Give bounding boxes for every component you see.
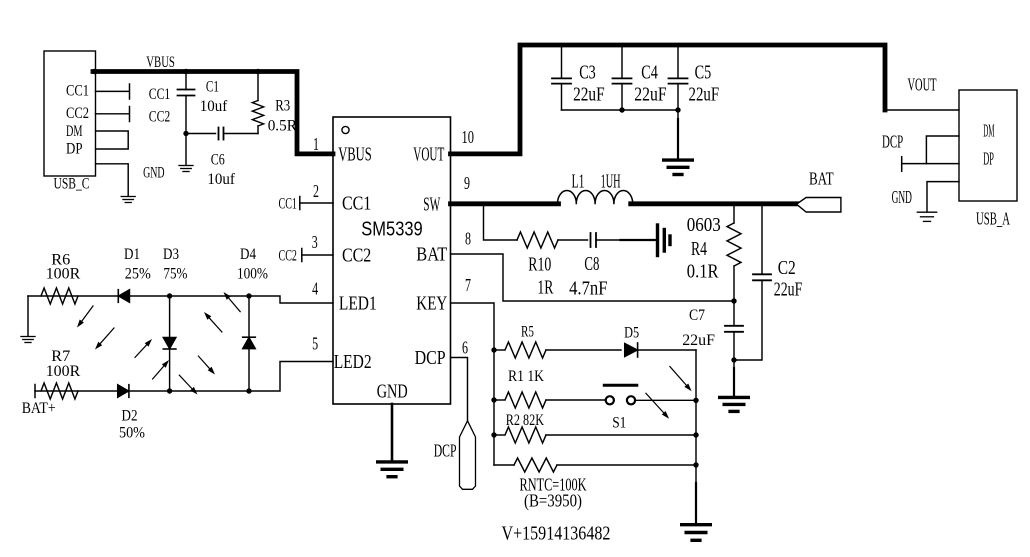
wire BAT pin8 to R4/C7 node [451, 254, 735, 301]
svg-text:(B=3950): (B=3950) [524, 490, 582, 510]
svg-text:CC1: CC1 [149, 86, 171, 103]
svg-text:7: 7 [465, 275, 471, 295]
ground left of R6 [27, 296, 29, 336]
resistor RNTC=100K [494, 464, 514, 466]
wire LED bottom rail [35, 362, 333, 392]
svg-text:C8: C8 [584, 253, 599, 275]
ground below S1 bus [682, 525, 711, 541]
pin CC1 of USB_C with open terminal [96, 90, 129, 92]
capacitor C4 22uF [621, 47, 623, 78]
diode D5 [625, 344, 638, 357]
svg-text:22uF: 22uF [682, 332, 715, 349]
svg-text:6: 6 [462, 338, 468, 358]
svg-text:DP: DP [66, 141, 83, 158]
svg-text:R1 1K: R1 1K [508, 368, 544, 385]
LED D2 50% [118, 385, 129, 398]
ground below USB_C GND pin [121, 197, 135, 203]
svg-text:4: 4 [312, 279, 318, 299]
svg-text:1: 1 [313, 134, 319, 154]
svg-text:22uF: 22uF [689, 84, 720, 106]
svg-text:CC2: CC2 [149, 108, 171, 125]
ground below C1 [179, 166, 193, 172]
svg-text:9: 9 [464, 173, 470, 193]
svg-text:D2: D2 [122, 407, 138, 424]
junction C1 tap [183, 69, 188, 74]
svg-text:C6: C6 [211, 152, 225, 169]
svg-text:CC2: CC2 [342, 244, 371, 266]
resistor R1 1K [494, 399, 504, 401]
terminal BAT+ [34, 385, 36, 398]
S1 press arrows [670, 367, 686, 386]
svg-text:22uF: 22uF [573, 84, 605, 106]
svg-text:10: 10 [462, 127, 475, 147]
connector USB_C [44, 51, 96, 176]
capacitor C6 10uf [186, 133, 216, 135]
svg-text:S1: S1 [612, 414, 626, 431]
svg-text:USB_C: USB_C [54, 176, 90, 193]
capacitor C1 10uf [185, 73, 187, 90]
svg-text:100%: 100% [237, 266, 268, 283]
resistor R4 0.1R 0603 [733, 206, 735, 223]
capacitor C2 22uF [761, 206, 763, 274]
svg-text:D3: D3 [163, 246, 179, 263]
resistor R10 1R [517, 232, 558, 248]
svg-text:GND: GND [892, 187, 912, 207]
connector BAT flag [797, 198, 841, 213]
svg-text:CC2: CC2 [279, 247, 297, 264]
svg-text:R3: R3 [275, 97, 290, 114]
svg-text:R2 82K: R2 82K [506, 412, 545, 429]
svg-text:USB_A: USB_A [976, 209, 1010, 229]
wire LED top rail [28, 296, 333, 303]
pin GND of USB_C [96, 164, 129, 196]
svg-text:VOUT: VOUT [908, 74, 937, 94]
ground (sideways) for C8 [658, 225, 671, 256]
svg-text:C3: C3 [579, 62, 596, 84]
capacitor C7 22uF [733, 301, 735, 326]
IC ground stem [391, 404, 394, 461]
wire KEY pin7 bus [451, 303, 495, 465]
ground below USB_A [917, 212, 936, 221]
resistor R6 100R [41, 288, 78, 304]
svg-text:VOUT: VOUT [413, 143, 444, 165]
svg-text:SW: SW [423, 193, 440, 215]
svg-text:CC1: CC1 [66, 83, 89, 100]
junction R3 tap [255, 69, 260, 74]
svg-text:DCP: DCP [882, 132, 903, 152]
wire DCP pin6 [451, 358, 468, 422]
resistor R7 100R [41, 383, 78, 399]
wire SW (thick) L1 to BAT connector [631, 201, 797, 206]
svg-text:50%: 50% [119, 425, 145, 442]
resistor R5 [494, 349, 504, 351]
svg-text:BAT: BAT [809, 169, 834, 189]
svg-text:SM5339: SM5339 [361, 219, 422, 241]
inductor L1 1UH [558, 191, 633, 204]
pins DM/DP of USB_A shorted to DCP terminal [926, 136, 959, 164]
svg-text:10uf: 10uf [200, 98, 228, 115]
capacitor C8 4.7nF [591, 233, 597, 247]
svg-text:C7: C7 [689, 307, 705, 324]
svg-text:CC1: CC1 [279, 195, 297, 212]
svg-text:GND: GND [377, 380, 408, 402]
junction C6 tap [183, 131, 188, 136]
capacitor C3 22uF [561, 47, 563, 78]
svg-text:1UH: 1UH [601, 171, 621, 193]
wire VOUT to USB_A [885, 109, 959, 111]
LED D1 25% [119, 290, 130, 303]
svg-text:22uF: 22uF [774, 279, 803, 301]
ground below C5 [677, 110, 679, 119]
pins DM/DP of USB_C shorted [96, 131, 129, 149]
svg-text:R4: R4 [691, 238, 707, 260]
svg-text:8: 8 [465, 228, 471, 248]
junction at USB_C VBUS [92, 69, 97, 74]
svg-text:CC1: CC1 [342, 192, 371, 214]
wire SW (thick) pin9 to L1 [451, 201, 559, 206]
connector DCP probe [460, 421, 476, 490]
svg-text:25%: 25% [125, 266, 151, 283]
svg-text:100R: 100R [46, 266, 81, 283]
ground below C7 [733, 368, 735, 396]
pin GND of USB_A [927, 182, 959, 212]
svg-text:0603: 0603 [687, 214, 721, 236]
svg-text:C4: C4 [641, 62, 658, 84]
wire SW to R10 [484, 206, 518, 240]
switch S1 pushbutton [606, 396, 614, 404]
wire VBUS (thick) from USB_C to pin1 of U1 [93, 72, 333, 154]
resistor R2 82K [494, 434, 504, 436]
wire VOUT (thick) pin10 up and across [451, 45, 886, 154]
svg-text:4.7nF: 4.7nF [569, 278, 607, 300]
svg-text:GND: GND [143, 165, 165, 182]
svg-text:1R: 1R [537, 277, 553, 299]
svg-text:CC2: CC2 [66, 105, 89, 122]
svg-text:D4: D4 [240, 246, 256, 263]
svg-text:DM: DM [983, 120, 994, 140]
svg-text:100R: 100R [46, 363, 81, 380]
ground below U1 [378, 462, 407, 477]
svg-text:LED2: LED2 [334, 351, 372, 373]
svg-text:DCP: DCP [415, 347, 446, 369]
svg-text:KEY: KEY [416, 292, 447, 314]
svg-text:DCP: DCP [434, 441, 457, 461]
svg-text:2: 2 [313, 181, 319, 201]
svg-text:0.5R: 0.5R [268, 117, 298, 134]
svg-text:C1: C1 [206, 79, 219, 96]
svg-text:BAT: BAT [416, 243, 447, 265]
LED D4 100% (vertical, up) [248, 296, 250, 391]
svg-text:V+15914136482: V+15914136482 [502, 523, 611, 545]
pin CC2 of USB_C with open terminal [96, 113, 129, 115]
svg-text:LED1: LED1 [339, 292, 377, 314]
svg-text:22uF: 22uF [634, 84, 666, 106]
svg-text:VBUS: VBUS [338, 143, 372, 165]
svg-text:D5: D5 [624, 325, 639, 342]
svg-text:DM: DM [66, 123, 83, 140]
svg-text:C2: C2 [778, 257, 796, 279]
op-amp U1 SM5339 IC body [333, 117, 451, 404]
wire C8 to ground [596, 239, 621, 241]
svg-text:L1: L1 [572, 171, 585, 193]
svg-text:R5: R5 [521, 324, 534, 341]
LED D3 75% (vertical) [169, 296, 171, 391]
svg-text:DP: DP [983, 149, 994, 169]
wire right bus of key rows [695, 350, 697, 483]
LED light arrows [82, 306, 93, 321]
svg-text:R10: R10 [528, 254, 551, 276]
svg-text:D1: D1 [124, 246, 140, 263]
svg-text:75%: 75% [163, 266, 187, 283]
svg-text:BAT+: BAT+ [22, 400, 56, 417]
svg-text:C5: C5 [695, 62, 712, 84]
svg-text:5: 5 [312, 334, 318, 354]
svg-text:10uf: 10uf [207, 171, 235, 188]
connector USB_A [959, 90, 1017, 201]
resistor R3 0.5R [257, 73, 259, 101]
wire cap bottom rail [562, 109, 679, 111]
svg-text:3: 3 [312, 232, 318, 252]
svg-text:VBUS: VBUS [146, 54, 175, 71]
svg-text:0.1R: 0.1R [687, 260, 719, 282]
capacitor C5 22uF [677, 47, 679, 78]
